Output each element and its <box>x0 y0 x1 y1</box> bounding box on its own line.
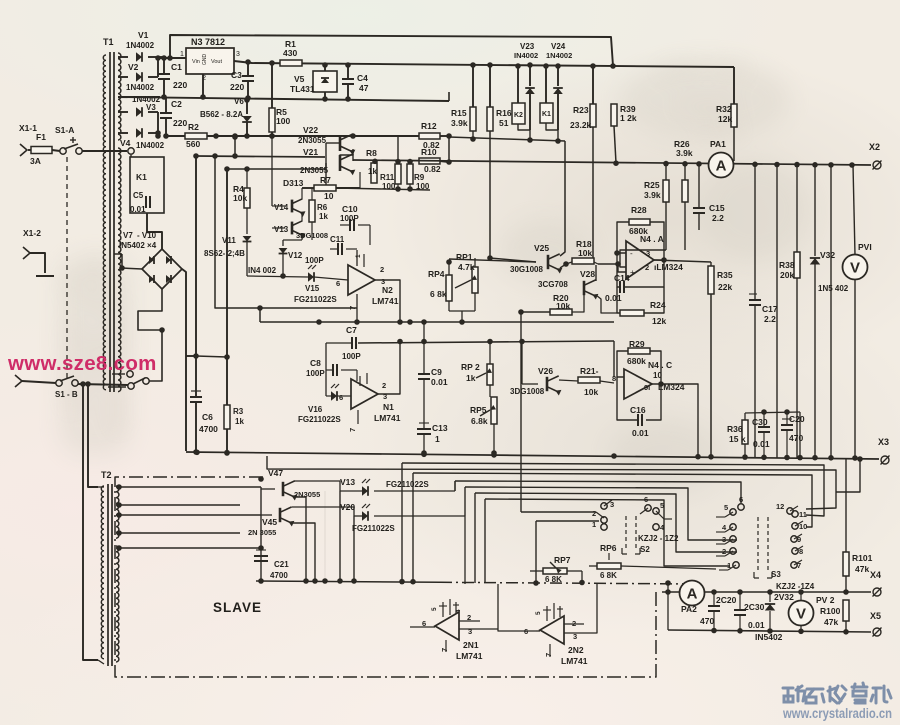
svg-text:2.2: 2.2 <box>712 213 724 223</box>
svg-text:4700: 4700 <box>270 571 288 580</box>
svg-text:3.9k: 3.9k <box>644 190 661 200</box>
svg-text:C2: C2 <box>171 99 182 109</box>
svg-text:KZJ2 - 1Z2: KZJ2 - 1Z2 <box>638 534 679 543</box>
transistor V45 2N3055 <box>279 508 282 522</box>
voltmeter PV2 <box>789 601 814 626</box>
svg-text:RP7: RP7 <box>554 555 571 565</box>
wire T2 feed <box>83 386 98 660</box>
wire base ladder <box>325 143 327 188</box>
svg-text:C7: C7 <box>346 325 357 335</box>
svg-text:2N 3055: 2N 3055 <box>248 528 276 537</box>
wire loop L5 <box>465 487 737 540</box>
diode V1 1N4002 <box>136 52 142 62</box>
wire <box>98 486 104 488</box>
relay coil K1 <box>545 66 547 103</box>
wire <box>22 381 56 383</box>
svg-text:6 8K: 6 8K <box>600 571 617 580</box>
wire column with C17 <box>754 165 756 300</box>
svg-text:R101: R101 <box>852 553 873 563</box>
svg-text:B562 - 8.2A: B562 - 8.2A <box>200 110 243 119</box>
svg-text:0.01: 0.01 <box>753 439 770 449</box>
svg-text:FG211022S: FG211022S <box>294 295 337 304</box>
svg-text:V2: V2 <box>128 62 139 72</box>
capacitor C30 0.01 <box>763 412 765 427</box>
svg-text:2: 2 <box>645 263 649 272</box>
svg-text:3DG1008: 3DG1008 <box>510 387 545 396</box>
connector mains-2 <box>15 375 22 387</box>
svg-text:LM741: LM741 <box>456 651 483 661</box>
svg-text:PA1: PA1 <box>710 139 726 149</box>
svg-text:LM741: LM741 <box>561 656 588 666</box>
svg-text:8: 8 <box>612 374 616 383</box>
wire rail M1 <box>260 321 614 323</box>
svg-text:C1: C1 <box>171 62 182 72</box>
svg-text:2N3055: 2N3055 <box>300 166 329 175</box>
wire V28 collector <box>595 265 597 281</box>
wire D313 top <box>227 163 326 169</box>
svg-text:K1: K1 <box>136 172 147 182</box>
transistor V25 30G1008 <box>547 255 550 269</box>
svg-text:IN5402 ×4: IN5402 ×4 <box>119 241 157 250</box>
svg-text:R23: R23 <box>573 105 589 115</box>
switch S1-B second pole tap selector <box>128 383 134 389</box>
svg-text:C4: C4 <box>357 73 368 83</box>
svg-text:SLAVE: SLAVE <box>213 600 262 615</box>
wire feedback column <box>215 156 357 308</box>
terminal X5 <box>873 628 881 636</box>
wire <box>324 491 326 581</box>
capacitor C3 220 <box>247 62 249 76</box>
wire collector V22 <box>352 134 354 136</box>
wire <box>260 487 262 581</box>
wire base V22 <box>326 142 340 144</box>
svg-text:C16: C16 <box>630 405 646 415</box>
svg-text:- V10: - V10 <box>137 231 157 240</box>
fuse F1 3A <box>31 147 52 154</box>
svg-text:430: 430 <box>283 48 297 58</box>
resistor R12 0.82 <box>419 133 440 139</box>
wire bus y581 <box>256 581 440 582</box>
svg-text:V7: V7 <box>123 231 133 240</box>
svg-text:V23: V23 <box>520 42 535 51</box>
svg-text:2: 2 <box>592 509 596 518</box>
svg-text:R100: R100 <box>820 606 841 616</box>
wire <box>353 516 355 581</box>
wire T2 taps <box>116 486 261 488</box>
svg-text:PA2: PA2 <box>681 604 697 614</box>
wire bridge AC tap <box>114 253 122 255</box>
wire relay S2 contact 1 <box>536 520 599 522</box>
shunt reference V5 TL431 <box>313 71 337 92</box>
svg-text:S1-A: S1-A <box>55 125 74 135</box>
capacitor C7 100P <box>351 337 353 349</box>
wire loop L3 <box>413 473 812 527</box>
switch S1-A <box>60 148 66 154</box>
svg-text:R32: R32 <box>716 104 732 114</box>
watermark crystalradio logo <box>783 683 891 703</box>
wire node V3-V4 <box>157 112 159 136</box>
op-amp N1 LM741 <box>351 379 378 409</box>
svg-text:PV 2: PV 2 <box>816 595 835 605</box>
svg-text:X4: X4 <box>870 570 881 580</box>
svg-text:47k: 47k <box>824 617 838 627</box>
svg-text:X1-2: X1-2 <box>23 228 41 238</box>
wire collector V21 <box>352 154 354 161</box>
svg-text:2N3055: 2N3055 <box>298 136 327 145</box>
svg-text:R3: R3 <box>233 407 244 416</box>
wire base V25 <box>490 258 536 262</box>
wire emitter V22 to base V21 <box>340 149 353 158</box>
capacitor C6 4700 column <box>195 156 197 396</box>
svg-text:2: 2 <box>380 265 384 274</box>
wire N1 output <box>378 341 400 394</box>
wire plus input <box>598 264 626 272</box>
svg-text:10k: 10k <box>556 301 570 311</box>
wire rail B <box>234 61 734 67</box>
wire node V1-V2 <box>157 58 159 77</box>
svg-text:6: 6 <box>336 279 340 288</box>
wire <box>118 56 128 58</box>
led V15 FG211022S <box>308 272 314 282</box>
transformer T1 secondary winding <box>118 53 121 140</box>
relay K1 box <box>130 157 164 213</box>
svg-text:www.sze8.com: www.sze8.com <box>7 352 157 375</box>
svg-text:V3: V3 <box>146 103 156 112</box>
svg-text:0.82: 0.82 <box>424 164 441 174</box>
svg-text:7: 7 <box>440 648 449 652</box>
wire N2 pin7 to M1 <box>356 294 358 322</box>
relay S2 contacts <box>601 503 607 509</box>
svg-text:C8: C8 <box>310 358 321 368</box>
svg-text:RP6: RP6 <box>600 543 617 553</box>
resistor R32 12k <box>733 67 735 104</box>
svg-text:47k: 47k <box>855 564 869 574</box>
wire 2N2 pins <box>546 606 548 621</box>
transformer T1 primary winding <box>103 55 106 390</box>
capacitor C16 0.01 <box>637 414 639 426</box>
ammeter PA1 <box>709 153 734 178</box>
wire rail A top <box>170 35 613 66</box>
svg-text:FG211022S: FG211022S <box>386 480 429 489</box>
wire V47 collector <box>294 481 340 491</box>
svg-text:2V32: 2V32 <box>774 592 794 602</box>
svg-text:V: V <box>850 260 860 277</box>
svg-text:7: 7 <box>544 653 553 657</box>
led V20 FG211022S <box>354 515 362 517</box>
wire R39 down <box>614 126 616 163</box>
resistor R18 10k <box>572 258 594 264</box>
resistor R26 bar <box>684 164 686 180</box>
svg-text:X2: X2 <box>869 142 880 152</box>
regulator N3 7812 <box>186 48 234 74</box>
diode V4 1N4002 <box>136 128 142 138</box>
wire loop L2 <box>402 463 824 516</box>
svg-text:5: 5 <box>724 503 728 512</box>
svg-text:C17: C17 <box>762 304 778 314</box>
transistor V26 3DG1008 <box>546 377 549 391</box>
wire <box>664 518 672 520</box>
wire R23 down <box>592 127 594 258</box>
bridge rectifier V7-V10 <box>142 249 182 289</box>
capacitor C15 2.2 <box>698 164 700 208</box>
resistor R8 1k <box>371 163 377 183</box>
transformer T2 secondary winding <box>116 486 119 538</box>
svg-text:Vout: Vout <box>211 59 222 65</box>
column with diode V32 <box>814 165 816 256</box>
resistor R25 3.9k <box>665 164 667 180</box>
wire <box>546 123 558 141</box>
svg-text:23.2k: 23.2k <box>570 120 592 130</box>
wire output to R35 <box>654 260 711 262</box>
tap terminal <box>128 148 134 154</box>
svg-text:X1-1: X1-1 <box>19 123 37 133</box>
svg-text:1N4002: 1N4002 <box>136 141 165 150</box>
capacitor C9 0.01 <box>423 322 425 374</box>
svg-text:3A: 3A <box>30 156 41 166</box>
svg-text:3: 3 <box>722 535 726 544</box>
connector X1-1 <box>20 144 27 156</box>
resistor R24 12k <box>620 310 644 316</box>
wire emitter row <box>336 188 430 190</box>
resistor R2 560 <box>185 133 207 139</box>
svg-text:6.8k: 6.8k <box>471 416 488 426</box>
wire <box>449 310 475 312</box>
wire rail X3 <box>186 452 879 459</box>
transistor V28 3CG708 <box>583 281 586 295</box>
transistor V22 2N3055 <box>339 135 342 151</box>
wire <box>440 135 449 137</box>
svg-text:FG211022S: FG211022S <box>298 415 341 424</box>
op-amp N4-A LM324 <box>626 241 654 279</box>
svg-text:22k: 22k <box>718 282 732 292</box>
wire rail X4 <box>662 591 871 593</box>
svg-text:V22: V22 <box>303 125 318 135</box>
svg-text:470: 470 <box>789 433 803 443</box>
svg-text:4700: 4700 <box>199 424 218 434</box>
svg-text:V20: V20 <box>340 502 355 512</box>
potentiometer RP5 6.8k <box>491 397 497 424</box>
svg-text:680k: 680k <box>629 226 648 236</box>
svg-text:1k: 1k <box>235 417 244 426</box>
svg-text:GND: GND <box>202 54 208 66</box>
svg-text:R15: R15 <box>451 108 467 118</box>
wire S3 left feeds <box>716 516 725 518</box>
svg-text:V13: V13 <box>340 477 355 487</box>
svg-text:1N5 402: 1N5 402 <box>818 284 849 293</box>
svg-text:N4 . C: N4 . C <box>648 360 672 370</box>
resistor R15 3.9k <box>472 65 474 107</box>
svg-text:100P: 100P <box>340 214 359 223</box>
op-amp 2N1 LM741 <box>435 612 459 640</box>
relay S3 contact levers <box>725 512 733 517</box>
potentiometer RP1 4.7k <box>472 267 478 293</box>
resistor R7 10 <box>314 185 336 191</box>
wire <box>359 172 361 188</box>
resistor R100 47k <box>843 600 849 621</box>
svg-text:V14: V14 <box>274 203 289 212</box>
wire <box>118 132 128 134</box>
resistor R9 100 <box>407 164 413 184</box>
svg-text:Vin: Vin <box>192 59 200 65</box>
wire N2 pins top <box>363 254 365 267</box>
svg-text:C9: C9 <box>431 367 442 377</box>
svg-text:4: 4 <box>455 609 462 613</box>
transistor V21 2N3055 <box>339 155 342 171</box>
svg-text:100P: 100P <box>305 256 324 265</box>
svg-text:2.2: 2.2 <box>764 314 776 324</box>
wire loop drops <box>401 463 403 581</box>
wire feedback R28 <box>617 222 629 253</box>
wire relay S2 feed from V28 net <box>520 312 522 512</box>
wire <box>745 412 800 413</box>
resistor R5 100 <box>271 63 273 108</box>
svg-text:V1: V1 <box>138 30 149 40</box>
svg-text:11: 11 <box>799 510 807 519</box>
svg-text:10k: 10k <box>584 387 598 397</box>
svg-text:IN4 002: IN4 002 <box>248 266 277 275</box>
voltmeter PV1 column <box>853 165 855 255</box>
svg-text:LM741: LM741 <box>374 413 401 423</box>
wire feedback R29 <box>617 351 628 377</box>
svg-text:R21-: R21- <box>580 366 599 376</box>
connector X1-2 <box>23 247 30 259</box>
resistor R21 10k <box>578 377 600 383</box>
svg-text:2C20: 2C20 <box>716 595 737 605</box>
svg-text:C30: C30 <box>752 417 768 427</box>
svg-text:V21: V21 <box>303 147 318 157</box>
wire base feed from filter <box>196 156 325 157</box>
transistor V14 <box>291 200 294 213</box>
wire y136 bus <box>353 135 419 137</box>
svg-text:S2: S2 <box>640 545 650 554</box>
column with R38 20k <box>796 165 798 252</box>
diode V2 1N4002 <box>136 72 142 82</box>
svg-text:F1: F1 <box>36 132 46 142</box>
svg-text:K1: K1 <box>542 111 551 118</box>
resistor R23 23.2k <box>592 66 594 104</box>
svg-text:0.01: 0.01 <box>130 205 146 214</box>
diode V12 100P <box>282 240 284 246</box>
potentiometer RP6 6.8K <box>597 563 621 569</box>
wire loop L7 <box>485 499 730 566</box>
svg-text:0.01: 0.01 <box>632 428 649 438</box>
svg-text:V47: V47 <box>268 468 283 478</box>
svg-text:C20: C20 <box>789 414 805 424</box>
terminal X4 <box>873 588 881 596</box>
wire <box>271 136 273 206</box>
svg-text:C13: C13 <box>432 423 448 433</box>
wire rail X2 <box>353 160 871 165</box>
svg-text:RP4: RP4 <box>428 269 445 279</box>
svg-text:1k: 1k <box>319 212 328 221</box>
svg-text:ıLM324: ıLM324 <box>654 262 683 272</box>
wire <box>799 412 801 457</box>
resistor R39 1.2k <box>611 104 617 126</box>
svg-text:2: 2 <box>382 381 386 390</box>
capacitor C2 220 <box>165 97 167 113</box>
wire <box>536 630 540 632</box>
diode V23 1N4002 <box>529 65 531 86</box>
wire <box>498 584 536 631</box>
wire V45 emitter <box>292 523 315 581</box>
capacitor C10 100P <box>349 219 351 231</box>
potentiometer RP7 6.8K <box>543 568 567 574</box>
svg-text:T1: T1 <box>103 37 114 47</box>
svg-text:R24: R24 <box>650 300 666 310</box>
slave enclosure dash-dot <box>115 477 656 677</box>
svg-text:D313: D313 <box>283 178 304 188</box>
svg-text:6: 6 <box>524 627 528 636</box>
wire <box>196 356 227 357</box>
svg-text:1: 1 <box>355 254 362 258</box>
wire loop to X3 <box>836 459 860 492</box>
stub bar <box>36 275 54 277</box>
svg-text:7: 7 <box>348 306 357 310</box>
svg-text:R12: R12 <box>421 121 437 131</box>
wire <box>234 137 236 156</box>
svg-text:6 8k: 6 8k <box>430 289 447 299</box>
transistor V13a <box>291 222 294 235</box>
svg-text:S3: S3 <box>771 570 781 579</box>
diode V24 1N4002 <box>557 66 559 86</box>
svg-text:FG211022S: FG211022S <box>352 524 395 533</box>
wire <box>667 583 669 630</box>
svg-text:C10: C10 <box>342 204 358 214</box>
capacitor C1 220 <box>163 58 165 74</box>
wire N2 input <box>314 277 348 280</box>
svg-text:TL431: TL431 <box>290 84 315 94</box>
svg-text:X3: X3 <box>878 437 889 447</box>
wire loop L1 <box>267 456 836 509</box>
svg-text:V25: V25 <box>534 243 549 253</box>
svg-text:0.01: 0.01 <box>431 377 448 387</box>
svg-text:A: A <box>687 586 698 603</box>
resistor R3 1k column <box>226 169 228 405</box>
svg-text:T2: T2 <box>101 470 112 480</box>
svg-text:N2: N2 <box>382 285 393 295</box>
led V16 FG211022S <box>331 391 337 401</box>
svg-text:2N1: 2N1 <box>463 640 479 650</box>
terminal X2 <box>873 161 881 169</box>
op-amp 2N2 LM741 <box>540 616 564 644</box>
wire R20 left <box>521 311 550 313</box>
svg-text:V5: V5 <box>294 74 305 84</box>
wire <box>339 491 341 581</box>
zener V6 B562-8.2A <box>246 100 248 114</box>
svg-text:10k: 10k <box>233 193 247 203</box>
svg-text:V: V <box>796 606 806 623</box>
wire V47 emitter <box>294 497 306 581</box>
relay S3 coil dashed <box>757 517 759 572</box>
svg-text:220: 220 <box>173 118 187 128</box>
wire <box>518 124 530 140</box>
resistor R36 15k <box>744 444 746 457</box>
svg-text:47: 47 <box>359 83 369 93</box>
capacitor C20 470 <box>786 412 788 425</box>
wire rail X5 <box>668 630 871 632</box>
svg-text:680k: 680k <box>627 356 646 366</box>
resistor R11 100 <box>395 164 401 184</box>
svg-text:470: 470 <box>700 616 714 626</box>
svg-text:220: 220 <box>173 80 187 90</box>
resistor R10 0.82 <box>419 158 440 164</box>
wire M2 to N4C area <box>613 341 615 377</box>
svg-text:1k: 1k <box>368 167 377 176</box>
svg-text:560: 560 <box>186 139 200 149</box>
wire N1 pins <box>359 376 361 386</box>
wire <box>130 155 132 157</box>
svg-text:10: 10 <box>324 191 334 201</box>
